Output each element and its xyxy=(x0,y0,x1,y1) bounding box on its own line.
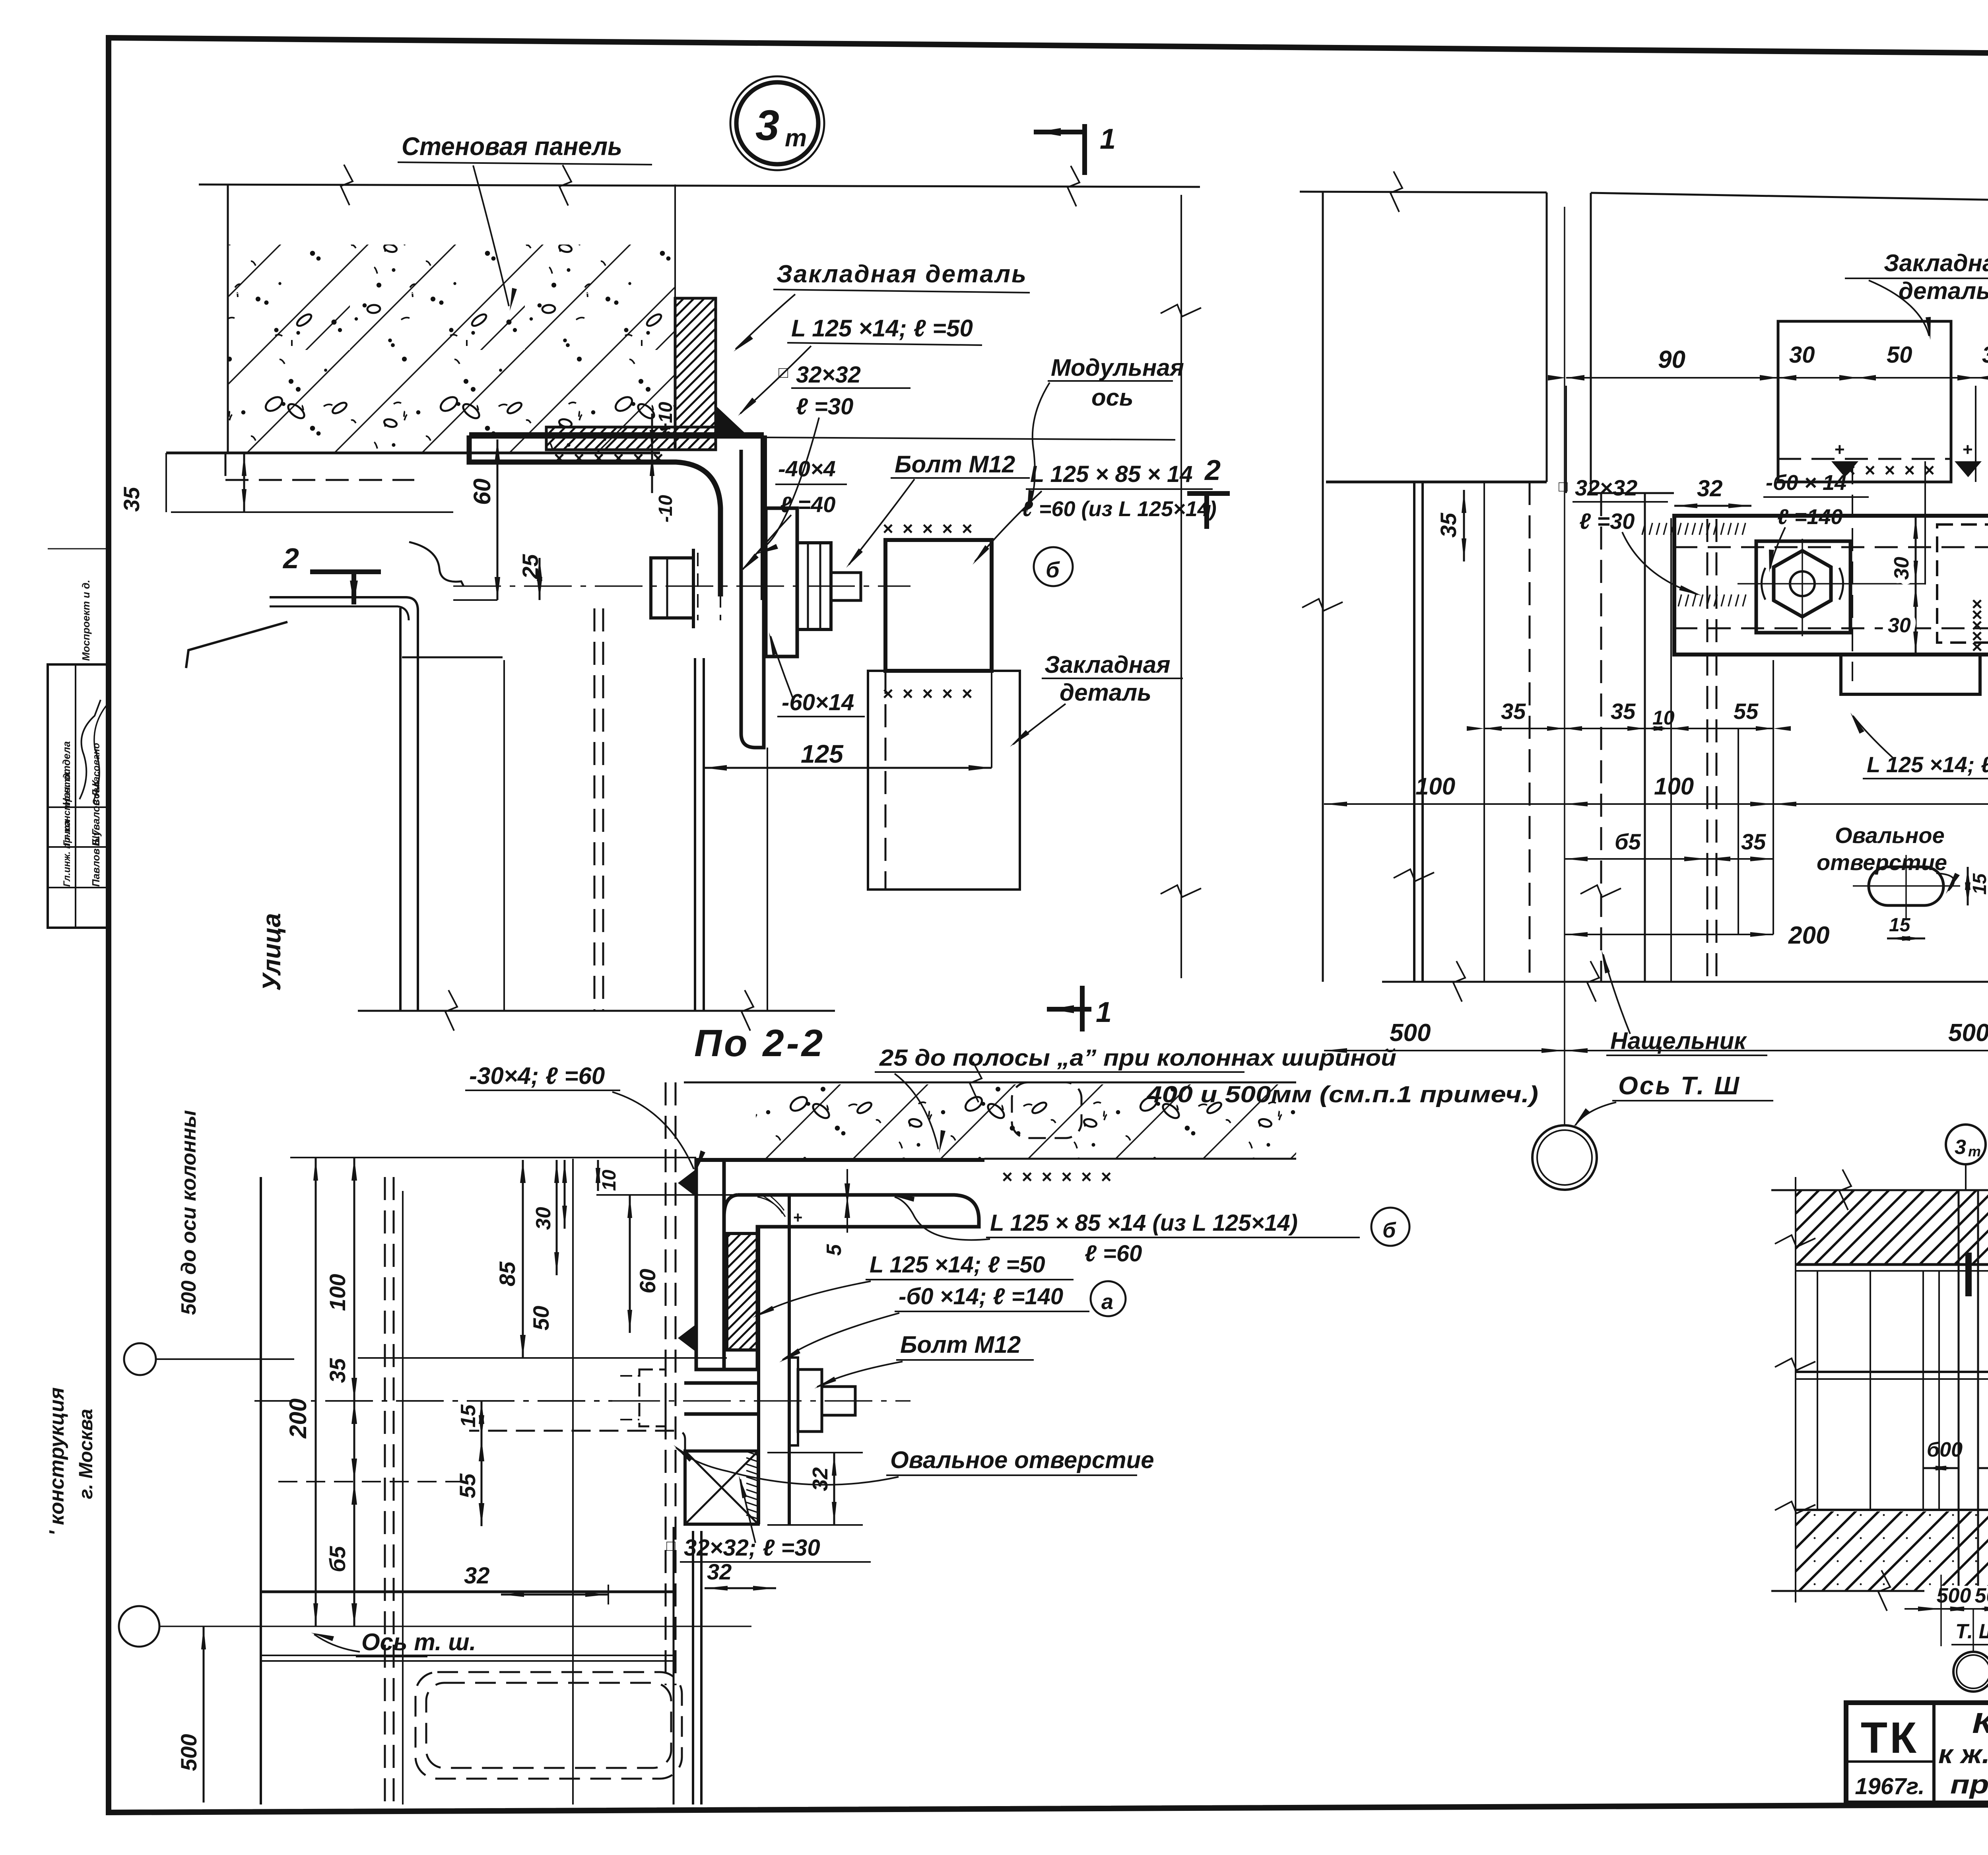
view3 dim 100 xyxy=(353,1158,355,1401)
view1 top line extension to section2 xyxy=(764,437,1175,440)
view3 mid dims 85 50 xyxy=(522,1160,524,1358)
svg-text:10: 10 xyxy=(599,1169,620,1191)
svg-text:32×32; ℓ =30: 32×32; ℓ =30 xyxy=(684,1535,820,1561)
svg-text:5: 5 xyxy=(823,1244,846,1256)
view3 left dim stack 200 xyxy=(315,1158,317,1626)
view3 slab top line xyxy=(684,1082,1296,1084)
svg-text:30: 30 xyxy=(1982,342,1988,368)
svg-text:-б0 × 14: -б0 × 14 xyxy=(1766,471,1846,495)
view3 transom beam lines xyxy=(261,1655,674,1656)
svg-text:б5: б5 xyxy=(1615,829,1641,854)
view3 washer nut tip xyxy=(790,1358,798,1445)
view2 window panel 1 xyxy=(1322,192,1324,982)
axis circle left lower xyxy=(119,1606,159,1647)
axis circle left upper xyxy=(124,1343,156,1375)
view2 washer square xyxy=(1937,524,1988,643)
svg-text:-60×14: -60×14 xyxy=(782,690,854,715)
view1 embedded plate B end view xyxy=(885,540,992,671)
view3 dashed sash outline xyxy=(415,1672,682,1779)
svg-text:+: + xyxy=(1963,440,1973,459)
svg-text:50: 50 xyxy=(1887,342,1912,368)
view1 plate lower right rect xyxy=(868,671,1020,890)
view1 window clip profile xyxy=(270,597,418,620)
svg-text:90: 90 xyxy=(1658,346,1685,373)
svg-text:ℓ =40: ℓ =40 xyxy=(780,492,835,517)
svg-text:500: 500 xyxy=(1390,1019,1431,1047)
view2 embedded plate top view xyxy=(1778,321,1951,482)
view3 panel bottom line xyxy=(261,1591,674,1593)
svg-text:××××××: ×××××× xyxy=(1002,1166,1120,1187)
svg-text:35: 35 xyxy=(325,1358,350,1383)
svg-text:35: 35 xyxy=(1611,699,1636,724)
dim row 100 100 xyxy=(1565,803,1988,805)
svg-text:30: 30 xyxy=(1888,614,1911,637)
svg-text:25 до полосы „а” при колоннах: 25 до полосы „а” при колоннах шириной xyxy=(879,1045,1396,1071)
view1 panel bottom line xyxy=(166,452,660,455)
dim row 90-30-50-30 xyxy=(1566,377,1988,379)
circle marker b view1 xyxy=(1034,547,1073,586)
view1 bottom line xyxy=(358,1010,835,1012)
leader stenovaya panel xyxy=(473,165,509,306)
svg-text:100: 100 xyxy=(325,1274,350,1311)
svg-text:-б0 ×14; ℓ =140: -б0 ×14; ℓ =140 xyxy=(899,1284,1063,1309)
svg-text:Ось Т. Ш: Ось Т. Ш xyxy=(1618,1071,1741,1100)
svg-text:60: 60 xyxy=(635,1269,660,1294)
elevation bottom band hatch xyxy=(1796,1511,1988,1591)
view3 strip -60x14 verticals xyxy=(757,1227,760,1524)
title block TK cell xyxy=(1846,1760,1934,1763)
view1 nut xyxy=(797,543,831,629)
svg-text:Модульная: Модульная xyxy=(1051,354,1184,381)
svg-text:500 до оси колонны: 500 до оси колонны xyxy=(177,1110,200,1315)
svg-text:ℓ =60: ℓ =60 xyxy=(1085,1241,1142,1266)
elevation transom lines xyxy=(1796,1371,1988,1373)
svg-text:т: т xyxy=(785,124,807,152)
svg-text:' конструкция: ' конструкция xyxy=(45,1387,68,1536)
view1 bolt tip xyxy=(831,573,861,600)
view1 dashed verticals to below xyxy=(885,671,887,890)
svg-text:отверстие: отверстие xyxy=(1817,850,1947,875)
axis line T.Sh xyxy=(1564,207,1565,1125)
svg-text:Овальное: Овальное xyxy=(1835,823,1945,848)
view1 bolt centerline xyxy=(453,585,911,587)
svg-text:+: + xyxy=(793,1209,802,1226)
svg-text:деталь: деталь xyxy=(1060,679,1151,706)
view1 embedded angle vertical leg xyxy=(675,298,716,450)
view2 weld triangles xyxy=(1831,461,1858,477)
view1 dashed hole lines xyxy=(697,553,699,620)
view3 bolt centerline xyxy=(612,1400,911,1402)
svg-text:б: б xyxy=(1046,557,1060,582)
svg-text:-10: -10 xyxy=(655,495,676,523)
view3 lower dashed bend xyxy=(469,1431,685,1451)
svg-text:32: 32 xyxy=(1697,476,1723,501)
svg-text:×××××: ××××× xyxy=(1967,599,1987,652)
svg-text:+10: +10 xyxy=(655,402,676,434)
view2 bottom line xyxy=(1382,981,1988,983)
svg-text:×××××: ××××× xyxy=(1845,460,1944,480)
circle marker b view3 xyxy=(1371,1208,1409,1246)
dim 125 view1 xyxy=(704,767,992,769)
svg-text:Овальное отверстие: Овальное отверстие xyxy=(890,1447,1154,1473)
view3 angle B vertical part xyxy=(696,1160,724,1369)
view3 dashed window edge xyxy=(665,1082,667,1685)
view1 bolt head xyxy=(651,558,693,618)
elevation top band bottom lines xyxy=(1796,1263,1988,1266)
view2 lower big plate xyxy=(1738,728,1739,934)
svg-text:Стеновая панель: Стеновая панель xyxy=(402,132,622,161)
svg-text:т: т xyxy=(1968,1143,1981,1160)
view1 mullion verticals xyxy=(399,608,402,1011)
dim 35 view2 left xyxy=(1463,490,1465,561)
view3 weld triangles left xyxy=(678,1169,696,1197)
svg-text:Моспроект и д.: Моспроект и д. xyxy=(80,580,92,661)
svg-text:32×32: 32×32 xyxy=(796,362,861,388)
svg-text:г. Москва: г. Москва xyxy=(76,1409,97,1499)
view1 bracket C-plate xyxy=(469,435,720,596)
svg-text:35: 35 xyxy=(1501,699,1526,724)
elevation node circle 3t xyxy=(1946,1125,1986,1164)
elevation grid verticals xyxy=(1817,1271,1818,1510)
svg-text:-30×4; ℓ =60: -30×4; ℓ =60 xyxy=(469,1062,605,1089)
view2 bolt axis lines xyxy=(1738,583,1925,585)
view1 panel left edge xyxy=(227,185,229,453)
svg-text:200: 200 xyxy=(1788,922,1829,949)
svg-text:32: 32 xyxy=(808,1467,832,1491)
svg-text:Т. Ш: Т. Ш xyxy=(1955,1620,1988,1643)
modular axis vertical xyxy=(1180,195,1182,978)
axis circle T.Sh xyxy=(1532,1125,1597,1190)
view2 top line xyxy=(1300,192,1547,192)
svg-text:55: 55 xyxy=(1734,699,1759,724)
svg-text:б5: б5 xyxy=(325,1546,350,1572)
svg-text:200: 200 xyxy=(285,1399,311,1439)
svg-text:32: 32 xyxy=(707,1559,732,1584)
dim 200 row xyxy=(1565,934,1773,935)
view2 nut square plate xyxy=(1756,541,1850,633)
view1 concrete panel hatch xyxy=(228,245,675,453)
svg-text:-40×4: -40×4 xyxy=(778,456,836,481)
view3 axis line t.sh xyxy=(160,1626,751,1627)
view1 vertical strip -60x14 xyxy=(741,600,764,748)
svg-text:125: 125 xyxy=(801,740,844,768)
view2 band plate -60x14 xyxy=(1674,516,1988,655)
elevation top band hatch xyxy=(1796,1190,1988,1265)
dim row 500 500 xyxy=(1324,1050,1988,1051)
view3 dims 30 10 60 xyxy=(564,1160,566,1229)
svg-text:1967г.: 1967г. xyxy=(1855,1773,1924,1799)
view2 dims 30 30 middle xyxy=(1915,516,1917,584)
elevation left axis xyxy=(1795,1177,1796,1602)
dim row 65 35 xyxy=(1565,858,1773,860)
svg-text:2: 2 xyxy=(282,543,299,575)
elevation axis circle xyxy=(1972,1609,1974,1652)
svg-text:30: 30 xyxy=(1789,342,1815,368)
svg-text:30: 30 xyxy=(532,1207,555,1230)
svg-text:ℓ =30: ℓ =30 xyxy=(1579,509,1635,534)
svg-text:ℓ =30: ℓ =30 xyxy=(796,394,853,420)
svg-text:50: 50 xyxy=(528,1306,553,1331)
view3 dims 15 55 xyxy=(481,1401,483,1438)
svg-text:+: + xyxy=(1835,440,1845,459)
view3 dim 5 xyxy=(845,1195,850,1218)
svg-text:а: а xyxy=(1101,1290,1113,1314)
svg-text:L 125 × 85 ×14 (из L 125×14): L 125 × 85 ×14 (из L 125×14) xyxy=(990,1210,1298,1236)
svg-text:L 125 × 85 × 14: L 125 × 85 × 14 xyxy=(1030,461,1193,487)
svg-text:L 125 ×14; ℓ =50: L 125 ×14; ℓ =50 xyxy=(1867,752,1988,777)
svg-text:при ширине колонн б00мм. Узе: при ширине колонн б00мм. Узел 3т xyxy=(1950,1770,1988,1799)
view2 plate L125x14 end xyxy=(1841,655,1980,694)
elevation bottom line xyxy=(1771,1590,1988,1592)
svg-text:ось: ось xyxy=(1091,384,1134,411)
svg-text:500: 500 xyxy=(176,1734,201,1771)
dim 35 view1 left xyxy=(243,453,245,512)
svg-text:Закладная деталь: Закладная деталь xyxy=(777,260,1027,288)
dim 500 bottom left xyxy=(203,1626,205,1803)
svg-text:×××××: ××××× xyxy=(883,683,982,704)
svg-text:к ж.б. колоннам у температурно: к ж.б. колоннам у температурного шва xyxy=(1938,1739,1988,1769)
view3 slab dashed strip xyxy=(1012,1082,1081,1138)
svg-text:30: 30 xyxy=(1890,557,1913,580)
svg-text:Улица: Улица xyxy=(257,913,286,991)
svg-text:35: 35 xyxy=(119,487,144,512)
svg-text:деталь: деталь xyxy=(1899,278,1988,304)
svg-text:Болт М12: Болт М12 xyxy=(895,451,1015,478)
view1 top line of panel xyxy=(199,185,1200,187)
svg-text:Павлов Б.Г: Павлов Б.Г xyxy=(90,829,102,887)
svg-text:□: □ xyxy=(779,364,788,381)
section mark 1 top xyxy=(1034,130,1085,134)
svg-text:×××××: ××××× xyxy=(883,518,982,539)
svg-text:25: 25 xyxy=(518,554,543,579)
view3 angle B horizontal leg xyxy=(724,1195,979,1369)
svg-text:Закладная: Закладная xyxy=(1884,250,1988,276)
elevation seam black mark xyxy=(1965,1253,1972,1296)
svg-text:32×32: 32×32 xyxy=(1575,475,1637,500)
view3 X-box xyxy=(685,1451,758,1524)
view1 weld triangle xyxy=(716,406,747,435)
svg-text:L 125 ×14; ℓ =50: L 125 ×14; ℓ =50 xyxy=(870,1252,1045,1278)
stamp signatures xyxy=(80,700,101,799)
svg-text:ТК: ТК xyxy=(1861,1713,1919,1762)
svg-text:ℓ =60 (из L 125×14): ℓ =60 (из L 125×14) xyxy=(1022,497,1217,521)
svg-text:15: 15 xyxy=(1969,873,1988,895)
svg-text:L 125 ×14; ℓ =50: L 125 ×14; ℓ =50 xyxy=(791,315,973,342)
dim row 35-35-10-55 xyxy=(1484,728,1773,729)
dim 32 right view3 xyxy=(833,1453,835,1525)
view1 washer plate xyxy=(766,508,797,657)
view2 oval hole detail xyxy=(1869,867,1943,905)
section mark 1 bottom xyxy=(1047,1007,1091,1012)
view3 slab hatch xyxy=(756,1084,1296,1159)
stamp table left margin xyxy=(48,664,109,928)
svg-text:3: 3 xyxy=(1955,1136,1966,1159)
svg-text:По 2-2: По 2-2 xyxy=(694,1022,825,1064)
view3 dim 35 xyxy=(353,1401,355,1482)
view3 bolt shaft xyxy=(684,1381,759,1385)
svg-text:55: 55 xyxy=(455,1473,480,1498)
elevation seam verticals xyxy=(1958,1190,1960,1591)
view3 dim 65 xyxy=(353,1482,355,1626)
svg-text:32: 32 xyxy=(464,1563,490,1589)
title block frame xyxy=(1846,1703,1988,1803)
view1 dashed lower edge xyxy=(225,479,414,481)
view1 embedded angle horizontal leg xyxy=(546,427,716,450)
svg-text:35: 35 xyxy=(1741,829,1766,854)
svg-text:85: 85 xyxy=(495,1261,520,1286)
svg-text:1: 1 xyxy=(1100,123,1116,155)
svg-text:Нащельник: Нащельник xyxy=(1610,1028,1747,1054)
svg-text:Болт М12: Болт М12 xyxy=(900,1331,1021,1358)
circle marker a view3 xyxy=(1091,1281,1126,1316)
svg-text:□: □ xyxy=(1559,478,1568,495)
view2 window panel 2 xyxy=(1590,193,1592,493)
view1 bracket top plate xyxy=(469,432,764,439)
svg-text:Крепление оконных панелей: Крепление оконных панелей xyxy=(1972,1707,1988,1739)
svg-text:1: 1 xyxy=(1096,996,1112,1028)
view2 nut hex xyxy=(1774,551,1831,617)
svg-text:100: 100 xyxy=(1654,773,1694,800)
view3 window mullions xyxy=(260,1177,262,1804)
elevation sill line xyxy=(1796,1509,1988,1511)
svg-text:3: 3 xyxy=(755,101,779,149)
svg-text:Закладная: Закладная xyxy=(1044,651,1171,678)
svg-text:35: 35 xyxy=(1436,513,1461,538)
svg-text:500: 500 xyxy=(1948,1019,1988,1047)
svg-text:500: 500 xyxy=(1975,1584,1988,1607)
view1 node circle 3t xyxy=(730,76,824,170)
view3 angle L125x14 hatched section xyxy=(727,1233,757,1350)
dim 25 view1 xyxy=(539,558,541,600)
svg-text:Гл.инж. пр-та: Гл.инж. пр-та xyxy=(62,820,72,887)
svg-text:2: 2 xyxy=(1204,455,1221,486)
view1 spring clip xyxy=(409,542,464,586)
view3 weld shading corner xyxy=(757,1195,785,1217)
view3 slab bottom thick xyxy=(696,1158,984,1162)
view3 bolt head dashed xyxy=(639,1369,666,1426)
dim 60 view1 xyxy=(497,439,499,600)
svg-text:б: б xyxy=(1382,1218,1396,1242)
elevation dim 500 500 xyxy=(1924,1586,1988,1605)
svg-text:ℓ =140: ℓ =140 xyxy=(1777,505,1843,529)
svg-text:60: 60 xyxy=(469,478,495,505)
svg-text:Ось т. ш.: Ось т. ш. xyxy=(361,1629,476,1655)
view2 lower extension verticals xyxy=(1413,482,1415,982)
svg-text:××××××: ×××××× xyxy=(554,448,672,468)
svg-text:15: 15 xyxy=(1889,915,1911,936)
svg-text:б00: б00 xyxy=(1927,1438,1963,1461)
svg-text:15: 15 xyxy=(457,1404,480,1428)
stamp upper note xyxy=(48,664,109,665)
